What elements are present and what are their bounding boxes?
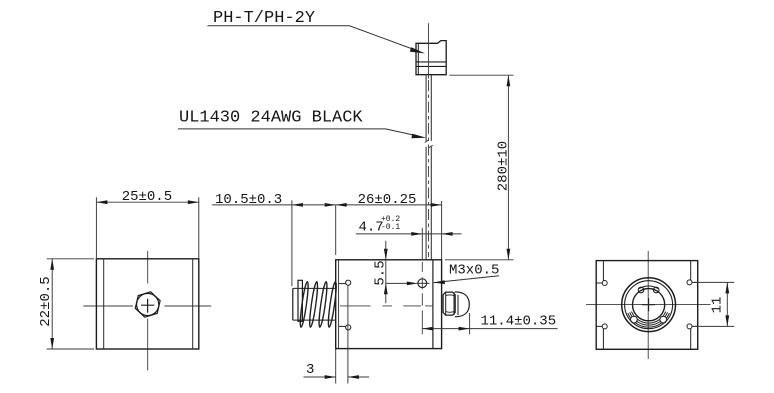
dimension 26±0.25 xyxy=(336,201,442,260)
bore bumps xyxy=(638,286,659,293)
svg-text:22±0.5: 22±0.5 xyxy=(38,276,54,326)
dimension 11 xyxy=(694,282,734,326)
solenoid body outline xyxy=(336,260,442,349)
M3 side hole xyxy=(418,279,427,288)
dimension 10.5±0.3 xyxy=(212,200,336,286)
body inner lines xyxy=(338,260,340,349)
label UL1430 24AWG BLACK xyxy=(178,109,427,139)
leader to hole from 5.5 dim xyxy=(386,282,413,284)
left view inner edge lines xyxy=(104,259,193,349)
wire centerline xyxy=(428,80,430,257)
spring xyxy=(299,281,338,327)
left view vertical centerline xyxy=(147,251,149,371)
svg-text:4.7: 4.7 xyxy=(359,220,384,236)
plunger rod xyxy=(293,280,336,321)
dimension 5.5 xyxy=(385,241,387,303)
bushing circles xyxy=(622,278,676,332)
svg-text:11: 11 xyxy=(710,297,726,314)
dimension 4.7 +0.2/-0.1 xyxy=(356,228,462,260)
nut center cross xyxy=(141,299,154,313)
spring seat washer xyxy=(298,280,302,321)
svg-text:10.5±0.3: 10.5±0.3 xyxy=(215,192,282,208)
cap nut (nose) xyxy=(443,292,469,317)
svg-text:26±0.25: 26±0.25 xyxy=(358,192,417,208)
tab edge line (extends to dim 3) xyxy=(347,285,349,383)
svg-text:UL1430 24AWG BLACK: UL1430 24AWG BLACK xyxy=(179,109,363,128)
svg-text:3: 3 xyxy=(306,362,314,378)
connector housing xyxy=(416,41,446,75)
dimension 22±0.5 xyxy=(47,259,94,349)
right view centerlines xyxy=(586,251,711,359)
left view body rectangle xyxy=(96,259,198,349)
svg-text:PH-T/PH-2Y: PH-T/PH-2Y xyxy=(213,9,315,28)
bottom mounting tab xyxy=(339,325,346,327)
right view inner lines + corner holes xyxy=(596,261,698,350)
svg-text:11.4±0.35: 11.4±0.35 xyxy=(481,314,557,330)
svg-text:-0.1: -0.1 xyxy=(381,223,400,232)
leader M3x0.5 xyxy=(434,276,499,283)
top mounting tab xyxy=(339,283,346,285)
dimension 3 xyxy=(304,349,370,384)
dimension 11.4±0.35 xyxy=(422,313,557,334)
center cross xyxy=(642,298,655,311)
right view square xyxy=(596,261,698,350)
dimension 25±0.5 xyxy=(96,197,198,258)
plunger dashed centerline xyxy=(340,305,433,307)
arc end feet xyxy=(631,316,667,323)
dimension 280±10 xyxy=(445,75,514,260)
svg-text:25±0.5: 25±0.5 xyxy=(122,189,172,205)
bottom thread arcs xyxy=(628,312,670,328)
wire (two leads) xyxy=(425,75,433,260)
svg-text:280±10: 280±10 xyxy=(496,141,512,191)
hex nut xyxy=(135,292,160,317)
left view horizontal centerline xyxy=(83,251,211,371)
connector centerline xyxy=(428,23,430,78)
label PH-T/PH-2Y xyxy=(207,9,425,54)
svg-text:M3x0.5: M3x0.5 xyxy=(449,263,499,279)
M3 hole vertical centerline xyxy=(421,262,423,334)
svg-text:5.5: 5.5 xyxy=(373,260,389,285)
